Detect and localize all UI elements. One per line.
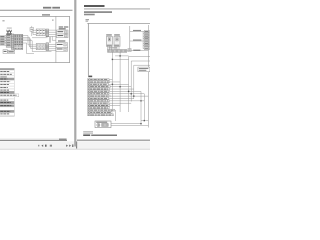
battery B1 wing right xyxy=(9,30,12,33)
right box R3 pin xyxy=(64,44,67,46)
component motor symbol xyxy=(97,123,100,126)
key list xyxy=(88,79,149,116)
legend table frame xyxy=(0,68,14,116)
right box R2 text xyxy=(57,35,63,36)
frame label line1 xyxy=(59,26,63,27)
nested frame corner3 xyxy=(134,65,150,99)
connector block J1 pin marks xyxy=(7,36,10,46)
relay column K1 xyxy=(11,34,13,49)
key row 14 xyxy=(88,109,115,111)
figure frame top border xyxy=(87,22,150,24)
legend row10 gray xyxy=(0,91,14,94)
connector edge box row4 xyxy=(0,43,6,45)
connector P2 inner core xyxy=(117,38,118,40)
legend row8 xyxy=(0,86,14,89)
right edge long bus xyxy=(147,25,149,128)
connector P2 hatch base xyxy=(114,45,120,47)
connector block J1 stripes xyxy=(6,37,11,45)
right box R2 xyxy=(57,34,68,38)
junction ladder a xyxy=(144,120,145,121)
nav button last xyxy=(72,144,73,147)
key row 7 xyxy=(88,93,145,95)
key row 12 xyxy=(88,104,121,106)
wire bundle to M group xyxy=(32,30,36,34)
component title text xyxy=(96,122,107,123)
fuse grid F1 xyxy=(14,34,23,44)
can label text1 xyxy=(139,68,149,69)
nav mark small xyxy=(38,145,39,147)
legend row15 text xyxy=(0,105,11,107)
legend row4 xyxy=(0,76,14,78)
battery B1 label xyxy=(7,27,12,30)
stair wires H1 to H2 xyxy=(49,37,56,43)
pins below P1 xyxy=(108,46,112,49)
fuse grid F1 lines xyxy=(14,34,23,44)
figure caption rest xyxy=(91,135,117,137)
right box R3 xyxy=(56,43,68,48)
figure frame inner divider xyxy=(55,16,57,62)
footer rule 1 xyxy=(83,131,93,133)
legend row17 gray xyxy=(0,110,14,112)
nested frame corner2 xyxy=(131,61,150,102)
frame label line2 xyxy=(59,28,66,29)
legend row5 gray xyxy=(0,78,14,80)
legend row3 xyxy=(0,73,14,76)
connector block J1 xyxy=(6,35,11,48)
figure frame left border xyxy=(87,23,89,75)
pane separator bottom xyxy=(76,142,78,149)
legend row5 text xyxy=(0,78,7,80)
node box N1 text xyxy=(31,29,33,30)
connector P1 hatch base xyxy=(106,45,112,47)
ecu grid G2 marks xyxy=(37,45,45,48)
right page note line2 xyxy=(86,20,89,23)
horizontal scrollbar track xyxy=(0,139,67,141)
footer rule 2 xyxy=(83,132,93,134)
wires H2 to frame xyxy=(49,45,56,51)
cross wire lower xyxy=(112,58,128,60)
connector P2 label xyxy=(114,34,120,35)
group2 label xyxy=(58,40,65,41)
connector P2 inner pin xyxy=(116,38,118,41)
legend row6 xyxy=(0,80,14,83)
cross wire upper xyxy=(115,55,129,57)
pins below P2 xyxy=(115,46,119,49)
component hatch teeth xyxy=(103,124,108,127)
connector hatch H2 teeth xyxy=(46,44,49,50)
battery feed label1 xyxy=(133,30,141,31)
legend row2 xyxy=(0,70,14,73)
long vertical bus B xyxy=(119,52,121,112)
junction at component wire xyxy=(140,123,141,124)
legend row16 xyxy=(0,107,14,110)
ecu grid G1 xyxy=(36,29,45,36)
battery feed label2 xyxy=(133,40,141,41)
right box R1 xyxy=(57,30,68,34)
fuse grid F1 lower marks xyxy=(15,46,23,48)
connector P1 hatch teeth xyxy=(107,45,111,47)
toolbar top border left xyxy=(0,140,67,142)
wire row14 to component xyxy=(114,110,117,121)
scrollbar thumb xyxy=(59,139,67,141)
nav button stop xyxy=(45,145,47,147)
nav button next xyxy=(66,145,68,147)
component hatch block xyxy=(102,124,109,127)
key row 9 xyxy=(88,97,134,99)
lower box L2 xyxy=(8,50,15,53)
right box R4 pin xyxy=(64,48,67,50)
key row 3 xyxy=(88,83,129,85)
terminal feeder bus xyxy=(143,31,144,48)
ecu grid G2 xyxy=(36,44,45,50)
wire strip to fuse box xyxy=(127,49,149,52)
connector edge box row2 xyxy=(0,38,6,40)
legend row13 xyxy=(0,99,14,101)
fuse label right xyxy=(133,50,140,51)
connector P1 inner pin xyxy=(108,38,110,41)
can label text2 xyxy=(139,70,147,71)
relay column K1 stripes xyxy=(11,36,13,47)
nav button prev xyxy=(41,145,43,147)
key row 10 xyxy=(88,100,145,102)
key row 2 xyxy=(88,81,121,83)
ladder wire right xyxy=(141,94,148,121)
right box R4 text xyxy=(57,48,63,49)
connector edge box row3 xyxy=(0,41,6,43)
legend row7 xyxy=(0,83,14,86)
legend row9 xyxy=(0,89,14,91)
legend row18 xyxy=(0,113,14,116)
bottom toolbar strip xyxy=(0,141,150,150)
key row 16 xyxy=(88,114,114,116)
connector P2 hatch teeth xyxy=(115,45,119,47)
connector hatch H1 xyxy=(46,29,49,37)
right box R1 pin xyxy=(64,31,67,33)
component box horn xyxy=(95,121,111,128)
right page note line1 xyxy=(86,19,90,20)
right page subtitle line2 xyxy=(84,14,95,16)
can label box xyxy=(138,67,150,72)
key row 13 xyxy=(88,107,110,109)
wire under G1 xyxy=(32,37,48,39)
fuse grid F1 lower block xyxy=(14,45,23,50)
margin dash xyxy=(2,19,4,22)
component wires right xyxy=(111,91,148,125)
ecu grid G2 lines xyxy=(36,44,45,50)
connector P1 label xyxy=(106,34,112,35)
connector hatch H2 xyxy=(46,43,49,51)
legend row17 text xyxy=(0,110,10,112)
figure caption word1 xyxy=(83,134,90,136)
nav button next2 xyxy=(69,145,71,147)
key row 8 xyxy=(88,95,149,97)
stair wires from fuse grid xyxy=(23,36,52,54)
legend row12 xyxy=(0,97,14,99)
nested frame corner1 xyxy=(129,56,150,112)
connector P1 body xyxy=(106,36,112,46)
key row 1 xyxy=(88,79,113,81)
toolbar top border right xyxy=(77,139,150,141)
connector edge box row1 xyxy=(0,36,6,38)
ecu grid G1 marks xyxy=(37,30,45,33)
key row 4 xyxy=(88,86,132,88)
left page header title word2 xyxy=(52,7,60,9)
terminal column boxes xyxy=(144,30,149,49)
legend row14 gray xyxy=(0,101,14,104)
terminal column texts xyxy=(145,31,149,49)
note text under rule xyxy=(42,14,50,15)
legend row11 wide xyxy=(0,94,19,97)
legend row14 text xyxy=(0,102,11,104)
frame inner tick xyxy=(52,20,54,21)
right page header rule xyxy=(84,8,150,10)
connector P2 body xyxy=(114,36,120,46)
legend row10 text xyxy=(0,92,9,94)
ecu grid G1 lines xyxy=(36,29,45,36)
figure frame left page xyxy=(0,16,70,62)
page background xyxy=(0,0,150,150)
page divider xyxy=(74,0,76,147)
splice strip S1 teeth xyxy=(109,50,126,53)
right box R1 text xyxy=(57,31,63,32)
connector P1 inner core xyxy=(109,38,110,40)
wire N1 drop xyxy=(31,26,33,36)
junction on cross wire lower xyxy=(112,59,113,60)
battery B1 wing left xyxy=(6,30,9,33)
key row 6 xyxy=(88,90,141,92)
battery feed wire1 xyxy=(130,30,143,32)
wires H1 to frame xyxy=(49,30,56,36)
label above splice xyxy=(108,47,117,48)
key row 11 xyxy=(88,102,132,104)
right box R2 pin xyxy=(64,35,67,37)
legend row15 gray xyxy=(0,105,14,107)
right box R3 text xyxy=(57,44,63,45)
connector hatch H1 teeth xyxy=(46,30,49,36)
splice strip S1 xyxy=(108,50,127,53)
key heading xyxy=(88,76,92,78)
key row 15 xyxy=(88,112,112,114)
junction on cross wire upper xyxy=(119,55,120,56)
long vertical bus A xyxy=(111,52,113,109)
battery B1 base bar xyxy=(6,33,12,34)
fuse grid F1 cell marks xyxy=(15,35,23,44)
lower box L1 xyxy=(3,50,7,54)
right page header title xyxy=(84,5,105,7)
component motor cross xyxy=(97,124,99,126)
legend header gray band xyxy=(0,68,14,70)
fuse box FB text xyxy=(128,50,130,51)
right box R4 xyxy=(56,47,68,51)
left page header rule xyxy=(0,9,73,11)
node box N1 xyxy=(30,28,34,32)
fuse box FB xyxy=(128,49,131,52)
left page header title word1 xyxy=(43,7,51,9)
nav button misc xyxy=(50,145,52,147)
bottom edge shade xyxy=(0,149,150,150)
battery feed wire2 xyxy=(130,40,143,42)
main bus to fuse box xyxy=(129,26,131,49)
key row 5 xyxy=(88,88,134,90)
right page subtitle line1 xyxy=(84,11,112,13)
